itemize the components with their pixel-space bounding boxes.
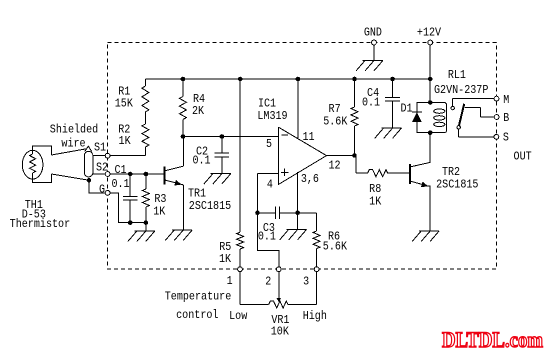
svg-text:1K: 1K bbox=[369, 194, 382, 208]
svg-text:1K: 1K bbox=[153, 204, 166, 218]
svg-text:2SC1815: 2SC1815 bbox=[189, 199, 231, 213]
svg-text:11: 11 bbox=[302, 130, 314, 144]
svg-text:12: 12 bbox=[328, 158, 340, 172]
svg-text:B: B bbox=[503, 111, 509, 125]
svg-text:G: G bbox=[99, 182, 105, 196]
svg-text:2K: 2K bbox=[192, 104, 205, 118]
svg-text:control: control bbox=[176, 308, 218, 322]
svg-text:High: High bbox=[303, 309, 327, 323]
svg-text:1: 1 bbox=[227, 274, 233, 288]
svg-text:S2: S2 bbox=[96, 161, 108, 175]
svg-text:Temperature: Temperature bbox=[165, 290, 232, 304]
svg-text:5.6K: 5.6K bbox=[323, 114, 348, 128]
svg-text:0.1: 0.1 bbox=[111, 177, 129, 191]
svg-text:DLTDL.com: DLTDL.com bbox=[442, 327, 543, 352]
svg-text:S1: S1 bbox=[94, 141, 106, 155]
svg-text:1K: 1K bbox=[119, 134, 132, 148]
svg-text:wire: wire bbox=[61, 137, 85, 151]
svg-text:1K: 1K bbox=[219, 252, 232, 266]
svg-text:15K: 15K bbox=[115, 97, 134, 111]
svg-text:OUT: OUT bbox=[514, 149, 532, 163]
svg-text:LM319: LM319 bbox=[257, 109, 287, 123]
svg-text:5: 5 bbox=[266, 137, 272, 151]
svg-text:GND: GND bbox=[364, 25, 382, 39]
svg-text:Thermistor: Thermistor bbox=[10, 217, 71, 231]
svg-text:10K: 10K bbox=[271, 324, 290, 338]
svg-text:3,6: 3,6 bbox=[301, 172, 319, 186]
svg-text:5.6K: 5.6K bbox=[323, 240, 348, 254]
svg-text:0.1: 0.1 bbox=[362, 95, 380, 109]
svg-text:4: 4 bbox=[267, 177, 273, 191]
svg-text:0.1: 0.1 bbox=[192, 154, 210, 168]
svg-text:D1: D1 bbox=[400, 102, 412, 116]
svg-text:0.1: 0.1 bbox=[258, 230, 276, 244]
svg-text:C1: C1 bbox=[114, 163, 126, 177]
svg-text:+12V: +12V bbox=[417, 26, 442, 40]
svg-text:S: S bbox=[503, 131, 509, 145]
svg-text:G2VN-237P: G2VN-237P bbox=[434, 83, 488, 97]
svg-text:M: M bbox=[503, 93, 509, 107]
svg-text:Shielded: Shielded bbox=[50, 123, 98, 137]
svg-text:2: 2 bbox=[265, 275, 271, 289]
svg-text:RL1: RL1 bbox=[448, 68, 466, 82]
svg-text:3: 3 bbox=[303, 275, 309, 289]
svg-text:Low: Low bbox=[229, 309, 248, 323]
svg-text:2SC1815: 2SC1815 bbox=[436, 178, 478, 192]
